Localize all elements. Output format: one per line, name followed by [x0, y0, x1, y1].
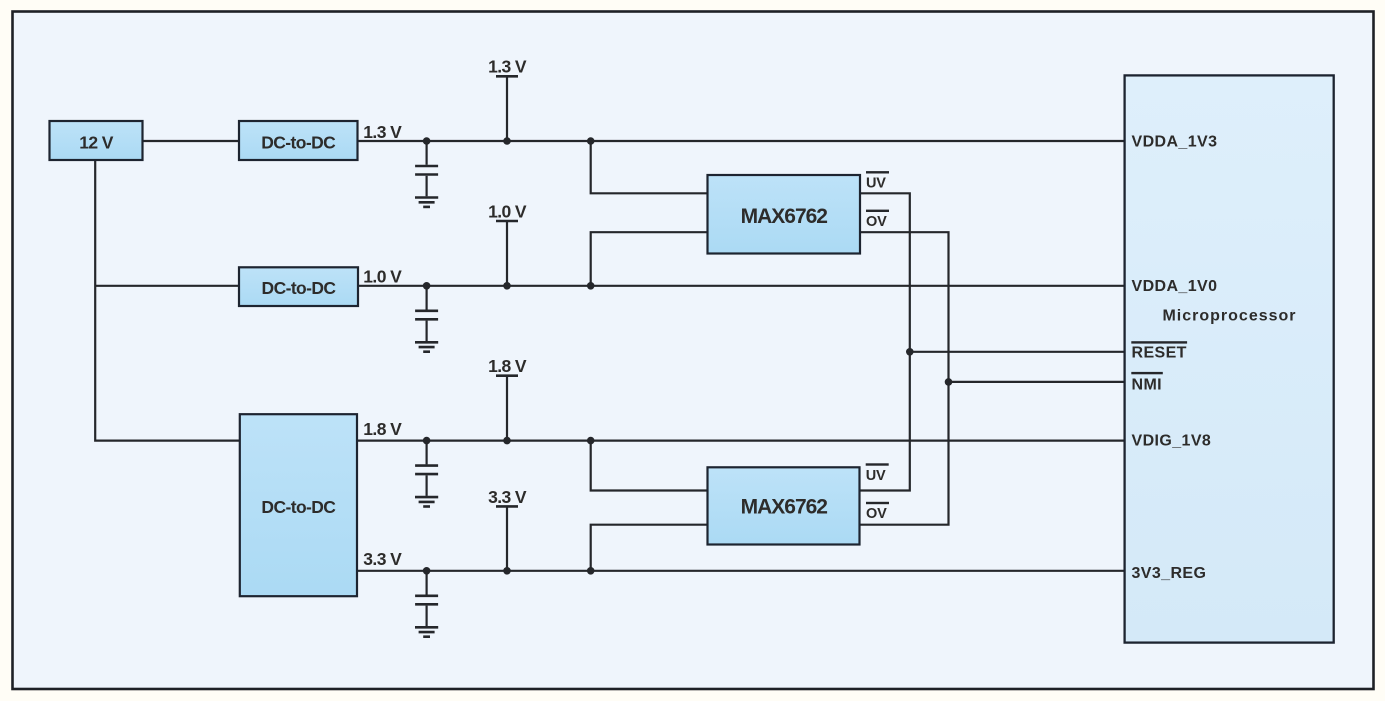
capacitor C4 [415, 571, 438, 626]
svg-text:VDDA_1V0: VDDA_1V0 [1132, 278, 1218, 295]
node 1.3V branch junction [587, 137, 595, 145]
svg-text:OV: OV [866, 214, 887, 230]
node C2 junction [423, 282, 431, 290]
svg-text:1.8 V: 1.8 V [488, 356, 527, 376]
pin NMI [1131, 372, 1163, 394]
supply 1.8V [488, 356, 527, 440]
node 1.8V branch junction [587, 437, 595, 445]
svg-text:OV: OV [866, 506, 887, 522]
svg-text:1.8 V: 1.8 V [363, 419, 402, 439]
wire MAX6762 U1 input 1 from 1.3V rail [591, 141, 708, 193]
wire 1.8V rail [357, 440, 1125, 442]
node 3.3V branch junction [587, 567, 595, 575]
pin OV U2 [866, 502, 889, 522]
svg-text:UV: UV [866, 176, 886, 192]
ground [415, 627, 438, 636]
wire NMI [949, 381, 1125, 383]
op-amp supervisor MAX6762 U2 [708, 467, 860, 544]
svg-text:1.0 V: 1.0 V [488, 202, 527, 222]
wire 1.0V rail [358, 285, 1125, 287]
block 12V source [50, 121, 143, 160]
svg-text:DC-to-DC: DC-to-DC [261, 497, 336, 517]
node NMI junction [945, 378, 953, 386]
node 1.0V supply junction [503, 282, 511, 290]
pin OV U1 [866, 210, 889, 230]
svg-text:VDDA_1V3: VDDA_1V3 [1132, 133, 1218, 150]
node 1.0V branch junction [587, 282, 595, 290]
svg-text:12 V: 12 V [79, 132, 114, 152]
op-amp supervisor MAX6762 U1 [708, 175, 861, 254]
wire RESET [910, 351, 1125, 353]
block DC-to-DC converter 1 [239, 121, 358, 160]
wire 12V feed branch to DC2 [95, 285, 239, 287]
block DC-to-DC converter 3 [240, 414, 357, 596]
ground [415, 342, 438, 351]
pin UV U2 [866, 463, 889, 484]
block Microprocessor [1125, 75, 1334, 642]
svg-text:DC-to-DC: DC-to-DC [261, 132, 336, 152]
wire MAX6762 U2 input 1 from 1.8V rail [591, 441, 708, 491]
svg-text:3.3 V: 3.3 V [488, 487, 527, 507]
svg-text:1.3 V: 1.3 V [363, 122, 402, 142]
supply 1.0V [488, 202, 527, 286]
wire MAX6762 U2 input 2 to 3.3V rail [591, 525, 708, 571]
svg-text:Microprocessor: Microprocessor [1162, 308, 1296, 325]
svg-text:VDIG_1V8: VDIG_1V8 [1132, 432, 1212, 449]
svg-text:1.0 V: 1.0 V [363, 267, 402, 287]
node C1 junction [423, 137, 431, 145]
wire MAX6762 U1 input 2 to 1.0V rail [591, 232, 708, 286]
svg-text:MAX6762: MAX6762 [741, 205, 828, 228]
node 1.3V supply junction [503, 137, 511, 145]
capacitor C1 [415, 141, 438, 196]
pin UV U1 [866, 171, 889, 192]
ground [415, 497, 438, 506]
svg-text:UV: UV [866, 468, 886, 484]
ground [415, 198, 438, 207]
node RESET junction [906, 348, 914, 356]
svg-text:3.3 V: 3.3 V [363, 549, 402, 569]
node C3 junction [423, 437, 431, 445]
block DC-to-DC converter 2 [239, 267, 358, 306]
wire 12V to DC1 [143, 140, 239, 142]
wire 1.3V rail [358, 140, 1125, 142]
svg-text:RESET: RESET [1132, 345, 1187, 362]
pin RESET [1131, 341, 1187, 361]
svg-text:1.3 V: 1.3 V [488, 57, 527, 77]
svg-text:NMI: NMI [1132, 377, 1163, 394]
node C4 junction [423, 567, 431, 575]
svg-text:DC-to-DC: DC-to-DC [262, 278, 337, 298]
capacitor C2 [415, 286, 438, 341]
wire 3.3V rail [357, 570, 1125, 572]
supply 1.3V [488, 57, 527, 141]
node 3.3V supply junction [503, 567, 511, 575]
svg-text:MAX6762: MAX6762 [741, 495, 828, 518]
wire OV net U1 to U2 [860, 232, 949, 525]
node 1.8V supply junction [503, 437, 511, 445]
wire 12V down feed to DC2 and DC3 [95, 160, 240, 441]
capacitor C3 [415, 441, 438, 496]
wire UV net U1 to U2 [860, 193, 910, 490]
svg-text:3V3_REG: 3V3_REG [1132, 565, 1207, 582]
supply 3.3V [488, 487, 527, 571]
